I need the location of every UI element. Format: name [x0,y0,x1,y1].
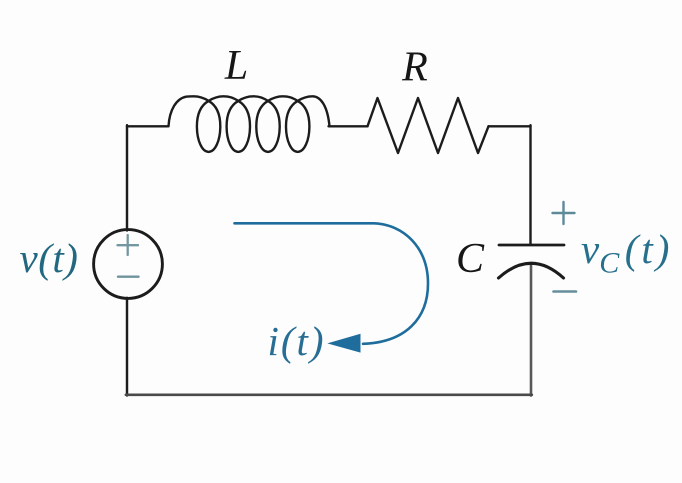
current loop arrowhead [327,334,360,353]
current loop arrow i(t) curve [235,223,429,343]
capacitor C bottom curved plate [499,263,564,278]
svg-text:R: R [401,45,428,91]
wire left upper (corner to source) [126,125,128,230]
wire right upper (top-right corner to capacitor) [529,125,531,244]
+ polarity mark inside source [118,235,139,255]
wire bottom [126,393,532,396]
wire between inductor and resistor [329,125,368,127]
- polarity mark inside source [118,276,139,278]
wire right lower (capacitor to bottom-right corner) [530,264,533,396]
svg-text:L: L [224,43,248,89]
svg-text:v(t): v(t) [20,235,79,281]
voltage source V1 circle [94,230,163,299]
capacitor C top plate [499,244,564,247]
wire resistor to top-right corner [489,125,531,127]
wire left lower (source to bottom corner) [126,298,128,396]
svg-text:vC(t): vC(t) [581,226,672,280]
resistor R zigzag [368,98,489,153]
+ polarity mark at capacitor [553,202,575,224]
svg-text:i(t): i(t) [268,318,326,364]
- polarity mark at capacitor [554,290,577,293]
wire top-left segment [127,125,168,127]
svg-text:C: C [456,236,485,282]
inductor L coil [169,96,330,152]
